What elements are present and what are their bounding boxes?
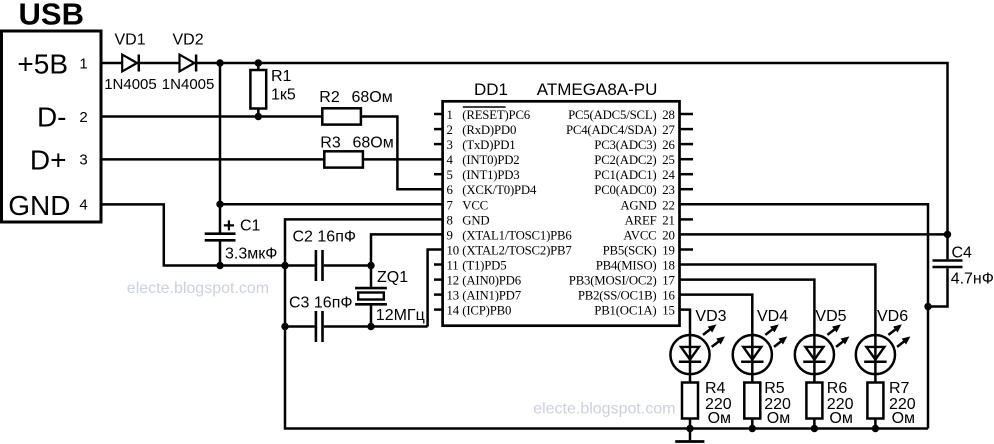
IC pin 12 label (AIN0)PD6 bbox=[447, 274, 522, 288]
wire AGND pin22 to ground bbox=[680, 204, 928, 428]
svg-text:VD1: VD1 bbox=[115, 32, 146, 49]
wire +5V down to C1 bbox=[219, 63, 222, 233]
resistor R7 bbox=[889, 380, 916, 427]
svg-text:26: 26 bbox=[662, 138, 675, 152]
wire IC pin 15 to LED VD3 bbox=[680, 310, 690, 336]
IC pin 22 label AGND bbox=[620, 198, 674, 212]
LED VD5 bbox=[795, 308, 848, 429]
svg-text:electe.blogspot.com: electe.blogspot.com bbox=[127, 280, 269, 297]
wire XTAL2 to IC pin 10 bbox=[428, 250, 442, 327]
IC pin 26 label PC3(ADC3) bbox=[594, 138, 675, 152]
wire D- from USB pin2 to R2 bbox=[100, 115, 322, 118]
IC pin 28 stub bbox=[680, 113, 693, 116]
svg-text:(ICP)PB0: (ICP)PB0 bbox=[462, 304, 511, 318]
ground bbox=[675, 429, 704, 442]
svg-text:(T1)PD5: (T1)PD5 bbox=[462, 259, 506, 273]
IC pin 11 stub bbox=[434, 263, 442, 266]
svg-text:4: 4 bbox=[79, 197, 87, 214]
IC pin 19 stub bbox=[680, 248, 693, 251]
USB connector X1 bbox=[2, 0, 102, 222]
svg-text:4: 4 bbox=[447, 153, 454, 167]
wire IC pin 18 to LED VD6 bbox=[680, 265, 875, 336]
IC pin 5 label (INT1)PD3 bbox=[447, 168, 520, 182]
svg-text:(TxD)PD1: (TxD)PD1 bbox=[462, 138, 515, 152]
svg-text:C4: C4 bbox=[952, 245, 973, 262]
svg-text:D+: D+ bbox=[30, 145, 67, 176]
svg-text:17: 17 bbox=[662, 274, 675, 288]
svg-text:Ом: Ом bbox=[829, 410, 852, 427]
IC pin 26 stub bbox=[680, 143, 693, 146]
IC pin 25 label PC2(ADC2) bbox=[594, 153, 674, 167]
node R1/D- line bbox=[255, 113, 262, 120]
svg-text:PB4(MISO): PB4(MISO) bbox=[596, 259, 657, 273]
IC pin 23 label PC0(ADC0) bbox=[594, 183, 674, 197]
resistor R1 bbox=[250, 63, 295, 117]
IC pin 27 label PC4(ADC4/SDA) bbox=[566, 123, 676, 137]
diode VD1 bbox=[104, 32, 157, 93]
op-amp/IC DD1 ATMEGA8A-PU box bbox=[443, 80, 680, 326]
wire +5V from USB pin1 to VD1 bbox=[100, 62, 122, 65]
node C4/AGND bbox=[924, 303, 931, 310]
svg-text:1: 1 bbox=[79, 55, 87, 72]
IC pin 19 label PB5(SCK) bbox=[603, 244, 675, 258]
USB pin GND label bbox=[8, 190, 87, 221]
IC pin 3 label (TxD)PD1 bbox=[447, 138, 516, 152]
diode VD2 bbox=[162, 32, 215, 93]
svg-text:(AIN1)PD7: (AIN1)PD7 bbox=[462, 289, 521, 303]
svg-text:R4: R4 bbox=[705, 380, 726, 397]
svg-text:(RxD)PD0: (RxD)PD0 bbox=[462, 123, 516, 137]
svg-text:GND: GND bbox=[8, 190, 70, 221]
svg-text:R2: R2 bbox=[319, 89, 340, 106]
capacitor C4 bbox=[928, 234, 994, 306]
svg-text:USB: USB bbox=[19, 0, 84, 32]
IC pin 12 stub bbox=[434, 278, 442, 281]
IC pin 4 label (INT0)PD2 bbox=[447, 153, 520, 167]
svg-text:23: 23 bbox=[662, 183, 674, 197]
svg-text:VD5: VD5 bbox=[815, 308, 846, 325]
svg-text:14: 14 bbox=[447, 304, 460, 318]
svg-text:R3: R3 bbox=[320, 135, 341, 152]
svg-text:PC0(ADC0): PC0(ADC0) bbox=[594, 183, 656, 197]
svg-text:8: 8 bbox=[447, 213, 453, 227]
svg-text:9: 9 bbox=[447, 228, 453, 242]
svg-text:VD6: VD6 bbox=[877, 308, 908, 325]
svg-text:28: 28 bbox=[662, 108, 674, 122]
svg-text:Ом: Ом bbox=[708, 410, 731, 427]
IC pin 13 label (AIN1)PD7 bbox=[447, 289, 522, 303]
svg-text:1: 1 bbox=[447, 108, 453, 122]
svg-text:1N4005: 1N4005 bbox=[162, 76, 215, 93]
svg-text:2: 2 bbox=[447, 123, 453, 137]
svg-text:R5: R5 bbox=[764, 380, 785, 397]
svg-text:PB3(MOSI/OC2): PB3(MOSI/OC2) bbox=[569, 274, 657, 288]
resistor R3 bbox=[320, 135, 393, 168]
node crystal top bbox=[367, 262, 374, 269]
IC pin 6 label (XCK/T0)PD4 bbox=[447, 183, 537, 197]
svg-text:Ом: Ом bbox=[892, 410, 915, 427]
IC pin 10 label (XTAL2/TOSC2)PB7 bbox=[447, 244, 573, 258]
svg-text:VCC: VCC bbox=[462, 198, 488, 212]
svg-text:ATMEGA8A-PU: ATMEGA8A-PU bbox=[537, 80, 658, 99]
IC pin 5 stub bbox=[434, 173, 442, 176]
resistor R2 bbox=[319, 89, 392, 125]
wire AVCC pin20 to +5V bbox=[680, 233, 948, 236]
wire D+ from USB pin3 to R3 bbox=[100, 158, 324, 161]
svg-text:25: 25 bbox=[662, 153, 674, 167]
svg-text:(INT1)PD3: (INT1)PD3 bbox=[462, 168, 519, 182]
resistor R4 bbox=[705, 380, 732, 427]
IC pin 17 label PB3(MOSI/OC2) bbox=[569, 274, 676, 288]
svg-text:ZQ1: ZQ1 bbox=[377, 269, 408, 286]
IC pin 7 label VCC bbox=[447, 198, 489, 212]
IC pin 21 stub bbox=[680, 218, 693, 221]
wire between VD1 and VD2 bbox=[139, 62, 180, 65]
node R6/ground rail bbox=[811, 425, 818, 432]
node AVCC/+5V/C4 bbox=[944, 231, 951, 238]
svg-text:3.3мкФ: 3.3мкФ bbox=[225, 246, 277, 263]
LED VD6 bbox=[856, 308, 909, 429]
svg-text:19: 19 bbox=[662, 244, 674, 258]
wire IC pin 8 GND down to bottom rail bbox=[285, 219, 928, 428]
node VCC tap bbox=[216, 201, 223, 208]
node +5V/R1 top bbox=[255, 59, 262, 66]
wire +5V top rail to AVCC vertical bbox=[196, 63, 947, 234]
svg-text:(XCK/T0)PD4: (XCK/T0)PD4 bbox=[462, 183, 537, 197]
IC pin 1 stub bbox=[434, 113, 442, 116]
svg-text:C2 16пФ: C2 16пФ bbox=[293, 229, 357, 246]
IC pin 27 stub bbox=[680, 128, 693, 131]
svg-text:VD2: VD2 bbox=[173, 32, 204, 49]
svg-text:10: 10 bbox=[447, 244, 459, 258]
wire R3 to IC pin 4 bbox=[363, 158, 442, 161]
svg-text:18: 18 bbox=[662, 259, 674, 273]
IC pin 2 stub bbox=[434, 128, 442, 131]
LED VD4 bbox=[733, 308, 789, 429]
wire R2 to IC pin 6 bbox=[361, 117, 442, 190]
svg-text:3: 3 bbox=[447, 138, 453, 152]
capacitor C3 bbox=[285, 294, 428, 342]
svg-text:Ом: Ом bbox=[767, 410, 790, 427]
svg-text:AVCC: AVCC bbox=[623, 228, 656, 242]
wire VCC to IC pin 7 bbox=[220, 203, 442, 206]
svg-text:GND: GND bbox=[462, 213, 489, 227]
svg-text:21: 21 bbox=[662, 213, 674, 227]
node R4/ground rail bbox=[686, 425, 693, 432]
IC pin 1 label (RESET)PC6 bbox=[447, 107, 531, 122]
node R7/ground rail bbox=[872, 425, 879, 432]
IC pin 23 stub bbox=[680, 188, 693, 191]
svg-text:PC2(ADC2): PC2(ADC2) bbox=[594, 153, 656, 167]
svg-text:PC1(ADC1): PC1(ADC1) bbox=[594, 168, 656, 182]
wire IC pin 17 to LED VD5 bbox=[680, 280, 814, 336]
svg-text:(AIN0)PD6: (AIN0)PD6 bbox=[462, 274, 521, 288]
svg-text:C3 16пФ: C3 16пФ bbox=[289, 294, 353, 311]
node +5V/C1 branch bbox=[216, 59, 223, 66]
svg-text:11: 11 bbox=[447, 259, 459, 273]
svg-text:PB2(SS/OC1B): PB2(SS/OC1B) bbox=[578, 289, 657, 303]
svg-text:VD3: VD3 bbox=[695, 308, 726, 325]
svg-text:2: 2 bbox=[79, 109, 87, 126]
resistor R5 bbox=[764, 380, 791, 427]
svg-text:(XTAL1/TOSC1)PB6: (XTAL1/TOSC1)PB6 bbox=[462, 228, 572, 242]
IC pin 14 label (ICP)PB0 bbox=[447, 304, 512, 318]
svg-text:electe.blogspot.com: electe.blogspot.com bbox=[533, 401, 675, 418]
svg-text:20: 20 bbox=[662, 228, 674, 242]
node C1/GND rail bbox=[216, 262, 223, 269]
svg-text:D-: D- bbox=[37, 102, 67, 133]
svg-text:PC4(ADC4/SDA): PC4(ADC4/SDA) bbox=[566, 123, 657, 137]
svg-text:1к5: 1к5 bbox=[271, 87, 296, 104]
svg-text:(XTAL2/TOSC2)PB7: (XTAL2/TOSC2)PB7 bbox=[462, 244, 572, 258]
IC pin 11 label (T1)PD5 bbox=[447, 259, 507, 273]
node crystal bottom bbox=[367, 323, 374, 330]
node GND rail / C2 bbox=[281, 262, 288, 269]
node GND vertical / C3 bbox=[281, 323, 288, 330]
wire XTAL1 to IC pin 9 bbox=[371, 234, 442, 265]
svg-text:(INT0)PD2: (INT0)PD2 bbox=[462, 153, 519, 167]
svg-text:AREF: AREF bbox=[625, 213, 657, 227]
svg-text:PC5(ADC5/SCL): PC5(ADC5/SCL) bbox=[568, 108, 656, 122]
USB pin +5B label bbox=[17, 49, 87, 80]
LED VD3 bbox=[670, 308, 726, 429]
svg-text:16: 16 bbox=[662, 289, 675, 303]
svg-text:AGND: AGND bbox=[620, 198, 656, 212]
svg-text:12: 12 bbox=[447, 274, 459, 288]
IC pin 25 stub bbox=[680, 158, 693, 161]
IC pin 20 label AVCC bbox=[623, 228, 674, 242]
IC pin 15 label PB1(OC1A) bbox=[594, 304, 674, 318]
svg-text:68Ом: 68Ом bbox=[353, 135, 394, 152]
IC pin 8 label GND bbox=[447, 213, 490, 227]
svg-text:68Ом: 68Ом bbox=[352, 89, 393, 106]
svg-text:7: 7 bbox=[447, 198, 454, 212]
IC pin 24 stub bbox=[680, 173, 693, 176]
svg-text:PB1(OC1A): PB1(OC1A) bbox=[594, 304, 656, 318]
capacitor C2 bbox=[285, 229, 371, 282]
svg-text:5: 5 bbox=[447, 168, 453, 182]
USB pin D- label bbox=[37, 102, 88, 133]
svg-text:R1: R1 bbox=[271, 68, 292, 85]
svg-text:4.7нФ: 4.7нФ bbox=[951, 271, 994, 288]
svg-text:24: 24 bbox=[662, 168, 675, 182]
IC pin 21 label AREF bbox=[625, 213, 675, 227]
svg-text:VD4: VD4 bbox=[757, 308, 788, 325]
node R5/ground rail bbox=[749, 425, 756, 432]
svg-text:6: 6 bbox=[447, 183, 454, 197]
wire C1 bottom to GND rail bbox=[219, 240, 222, 265]
svg-text:15: 15 bbox=[662, 304, 674, 318]
svg-text:PB5(SCK): PB5(SCK) bbox=[603, 244, 657, 258]
IC pin 2 label (RxD)PD0 bbox=[447, 123, 517, 137]
IC pin 13 stub bbox=[434, 293, 442, 296]
IC pin 24 label PC1(ADC1) bbox=[594, 168, 675, 182]
IC pin 9 label (XTAL1/TOSC1)PB6 bbox=[447, 228, 573, 242]
wire IC pin 16 to LED VD4 bbox=[680, 295, 752, 336]
capacitor C1 bbox=[205, 218, 278, 263]
svg-text:+5B: +5B bbox=[17, 49, 68, 80]
USB pin D+ label bbox=[30, 145, 88, 176]
svg-text:22: 22 bbox=[662, 198, 674, 212]
svg-text:PC3(ADC3): PC3(ADC3) bbox=[594, 138, 656, 152]
svg-text:C1: C1 bbox=[240, 218, 261, 235]
IC pin 3 stub bbox=[434, 143, 442, 146]
svg-text:R6: R6 bbox=[827, 380, 848, 397]
svg-text:1N4005: 1N4005 bbox=[104, 76, 157, 93]
IC pin 28 label PC5(ADC5/SCL) bbox=[568, 108, 675, 122]
svg-text:27: 27 bbox=[662, 123, 675, 137]
crystal ZQ1 bbox=[355, 266, 425, 327]
IC pin 16 label PB2(SS/OC1B) bbox=[578, 289, 676, 303]
svg-text:13: 13 bbox=[447, 289, 459, 303]
resistor R6 bbox=[827, 380, 854, 427]
svg-text:12МГц: 12МГц bbox=[376, 307, 425, 324]
svg-text:DD1: DD1 bbox=[474, 80, 508, 99]
svg-text:R7: R7 bbox=[889, 380, 910, 397]
IC pin 18 label PB4(MISO) bbox=[596, 259, 675, 273]
svg-text:3: 3 bbox=[79, 152, 87, 169]
IC pin 14 stub bbox=[434, 308, 442, 311]
svg-text:(RESET)PC6: (RESET)PC6 bbox=[462, 108, 530, 122]
wire GND from USB pin4 bbox=[100, 204, 285, 265]
